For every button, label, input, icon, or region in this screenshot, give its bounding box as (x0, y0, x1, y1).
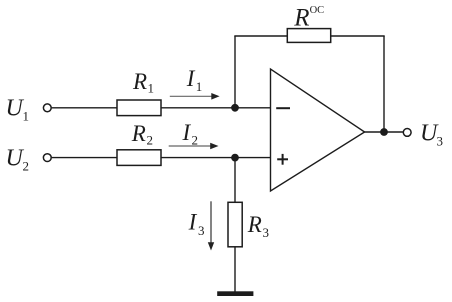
resistor R2 (117, 150, 161, 166)
minus (inverting input mark) (276, 107, 290, 109)
current arrow I3 (210, 201, 212, 243)
svg-text:I: I (186, 66, 196, 91)
svg-text:3: 3 (437, 133, 444, 148)
svg-text:R: R (132, 69, 147, 94)
svg-text:1: 1 (23, 109, 30, 124)
svg-text:R: R (293, 5, 309, 32)
terminal U1 (43, 104, 51, 112)
wire (feedback down to output) (383, 36, 385, 132)
node A (inverting input junction) (231, 104, 239, 112)
current arrow I1 (170, 95, 213, 97)
ground (217, 291, 253, 296)
wire (feedback top left) (234, 35, 287, 37)
wire (161, 107, 235, 109)
svg-text:3: 3 (198, 223, 205, 238)
wire (52, 157, 117, 159)
svg-text:3: 3 (263, 225, 270, 240)
svg-text:R: R (247, 212, 262, 237)
wire (161, 157, 235, 159)
wire (output) (365, 131, 404, 133)
wire (feedback top right) (331, 35, 385, 37)
svg-text:1: 1 (148, 80, 155, 95)
resistor R3 (228, 202, 242, 247)
node C (output junction) (380, 128, 388, 136)
wire (235, 157, 271, 159)
resistor R1 (117, 100, 161, 116)
svg-text:R: R (131, 121, 146, 146)
plus (non-inverting input mark) (277, 158, 288, 160)
svg-text:1: 1 (196, 79, 203, 94)
svg-text:I: I (188, 210, 198, 235)
wire (R3 to ground) (234, 247, 236, 292)
svg-text:OC: OC (310, 5, 325, 16)
svg-text:2: 2 (23, 158, 30, 173)
current arrow I2 (169, 145, 212, 147)
terminal U3 (403, 129, 411, 137)
op-amp (271, 69, 365, 191)
wire (feedback up from inverting node) (234, 36, 236, 108)
node B (non-inverting input junction) (231, 154, 239, 162)
wire (235, 107, 271, 109)
terminal U2 (43, 154, 51, 162)
svg-text:2: 2 (192, 133, 199, 148)
resistor ROC (feedback) (287, 29, 330, 43)
svg-text:2: 2 (147, 133, 154, 148)
svg-text:I: I (182, 120, 192, 145)
wire (52, 107, 117, 109)
wire (node B down to R3) (234, 158, 236, 203)
